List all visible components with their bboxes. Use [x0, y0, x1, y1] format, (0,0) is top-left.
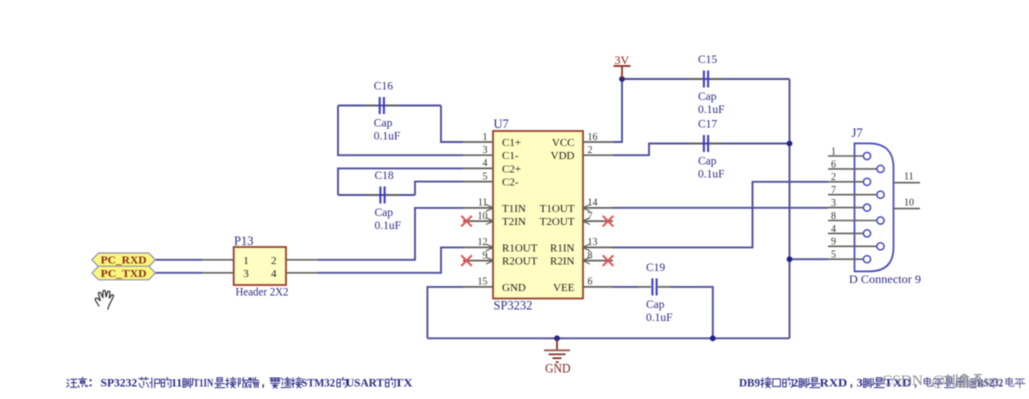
svg-text:GND: GND	[545, 361, 571, 375]
svg-text:T1OUT: T1OUT	[540, 203, 575, 215]
svg-text:T1IN: T1IN	[193, 376, 213, 390]
svg-text:11: 11	[478, 198, 488, 209]
pin 12 (R1OUT)	[463, 237, 538, 254]
svg-text:2: 2	[588, 145, 593, 156]
svg-text:R2IN: R2IN	[550, 256, 575, 268]
watermark CSDN	[882, 373, 1003, 389]
svg-text:RXD: RXD	[820, 376, 848, 390]
J7 pin 6	[828, 159, 884, 172]
svg-text:9: 9	[483, 250, 488, 261]
svg-text:3: 3	[857, 376, 863, 390]
connector J7 body	[855, 143, 894, 271]
svg-text:10: 10	[904, 198, 914, 209]
J7 pin 9	[828, 237, 884, 250]
wire C18 bottom	[338, 194, 415, 196]
wire 3V rail to C15	[622, 78, 790, 80]
wire P13.2 to T1IN	[318, 208, 463, 260]
wire pin 2 to C17	[613, 144, 790, 156]
IC U7 SP3232 body	[493, 131, 583, 299]
wire C16 to pin 3	[338, 106, 463, 156]
J7 pin 10	[894, 198, 921, 209]
power 3V	[614, 53, 631, 79]
svg-text:Cap: Cap	[698, 91, 717, 103]
wire P13.4 to R1OUT	[318, 247, 463, 272]
P13 pin 3 stub	[202, 272, 234, 274]
header P13 body	[234, 247, 286, 285]
pin 4 (C2+)	[463, 158, 521, 175]
junction	[787, 256, 793, 262]
J7 pin 5	[828, 250, 871, 263]
wire pin 4 to C18	[338, 168, 463, 195]
J7 pin 1	[828, 146, 871, 159]
svg-text:Header 2X2: Header 2X2	[236, 284, 289, 298]
wire GND to J7 pin 5	[790, 258, 829, 260]
svg-text:12: 12	[478, 237, 488, 248]
svg-text:0.1uF: 0.1uF	[646, 312, 673, 324]
svg-text:SP3232: SP3232	[101, 376, 138, 390]
svg-text:4: 4	[271, 268, 277, 280]
hand cursor	[95, 290, 113, 309]
svg-text:T2IN: T2IN	[502, 216, 526, 228]
svg-text:STM32: STM32	[302, 376, 336, 390]
capacitor C19 0.1uF	[638, 262, 673, 324]
svg-text:C16: C16	[374, 81, 393, 93]
svg-text:8: 8	[831, 211, 836, 222]
svg-text:Cap: Cap	[646, 299, 665, 311]
svg-text:2: 2	[271, 255, 277, 267]
svg-text:5: 5	[831, 250, 836, 261]
capacitor C18 0.1uF	[366, 170, 402, 232]
svg-text:Cap: Cap	[374, 118, 393, 130]
junction	[787, 141, 793, 147]
P13 pin 4 stub	[286, 272, 318, 274]
pin 5 (C2-)	[463, 171, 519, 188]
svg-text:T2OUT: T2OUT	[540, 216, 575, 228]
svg-text:15: 15	[478, 277, 488, 288]
svg-text:11: 11	[904, 172, 914, 183]
svg-text:Cap: Cap	[698, 156, 717, 168]
svg-text:3V: 3V	[615, 53, 630, 67]
svg-text:TX: TX	[395, 376, 413, 390]
pin 1 (C1+)	[463, 132, 521, 149]
svg-text:up.: up.	[985, 373, 1003, 389]
svg-text:4: 4	[831, 224, 836, 235]
wire C18 to pin 5	[415, 182, 463, 195]
svg-text:C19: C19	[646, 262, 665, 274]
pin 13 (R1IN)	[550, 237, 613, 254]
junction	[554, 335, 560, 341]
wire C19 to ground rail	[671, 287, 713, 338]
svg-text:VEE: VEE	[553, 282, 575, 294]
wire PC_RXD to P13.1	[155, 259, 202, 261]
svg-text:1: 1	[831, 146, 836, 157]
designator label P13	[234, 234, 253, 248]
P13 pin number 4	[271, 268, 277, 280]
svg-text:J7: J7	[852, 126, 863, 140]
svg-text:@: @	[932, 373, 945, 389]
port PC_TXD	[92, 266, 155, 280]
svg-text:U7: U7	[494, 117, 509, 131]
J7 pin 4	[828, 224, 871, 237]
J7 pin 8	[828, 211, 884, 224]
svg-text:2: 2	[831, 172, 836, 183]
svg-text:3: 3	[483, 145, 488, 156]
P13 pin 2 stub	[286, 259, 318, 261]
svg-text:GND: GND	[502, 282, 526, 294]
svg-text:CSDN: CSDN	[882, 373, 923, 389]
svg-text:C18: C18	[375, 170, 394, 182]
svg-text:1: 1	[243, 255, 249, 267]
P13 pin 1 stub	[202, 259, 234, 261]
pin 8 (R2IN)	[550, 250, 613, 267]
J7 pin 11	[894, 172, 921, 183]
svg-text:6: 6	[831, 159, 836, 170]
svg-text:7: 7	[588, 211, 593, 222]
note text (bottom right)	[739, 376, 1025, 390]
svg-text:13: 13	[588, 237, 598, 248]
svg-text:1: 1	[483, 132, 488, 143]
junction	[619, 76, 625, 82]
svg-text:C1+: C1+	[502, 137, 521, 149]
svg-text:T1IN: T1IN	[502, 203, 526, 215]
svg-text:3: 3	[831, 198, 836, 209]
P13 pin number 3	[243, 268, 249, 280]
svg-text:R2OUT: R2OUT	[502, 256, 538, 268]
svg-text:R1IN: R1IN	[550, 242, 575, 254]
svg-text:16: 16	[588, 132, 598, 143]
svg-text:0.1uF: 0.1uF	[698, 169, 725, 181]
svg-text:VCC: VCC	[552, 137, 575, 149]
J7 pin 3	[828, 198, 871, 211]
port PC_RXD	[92, 253, 155, 267]
no-connect X pin 9	[461, 255, 472, 266]
svg-text:0.1uF: 0.1uF	[698, 104, 725, 116]
pin 3 (C1-)	[463, 145, 519, 162]
J7 pin 7	[828, 185, 884, 198]
pin 9 (R2OUT)	[463, 250, 538, 267]
pin 14 (T1OUT)	[540, 198, 613, 215]
svg-text:D Connector 9: D Connector 9	[849, 272, 921, 286]
pin 16 (VCC)	[552, 132, 613, 149]
wire T1OUT to J7 pin 3	[613, 207, 828, 209]
svg-text:7: 7	[831, 185, 836, 196]
svg-text:C15: C15	[698, 54, 717, 66]
junction	[710, 335, 716, 341]
svg-text:C2-: C2-	[502, 177, 519, 189]
wire pin 6 to C19	[613, 286, 638, 288]
P13 pin number 1	[243, 255, 249, 267]
pin 10 (T2IN)	[463, 211, 526, 228]
wire pin 16 to 3V	[613, 79, 622, 142]
svg-text:3: 3	[243, 268, 249, 280]
no-connect X pin 10	[461, 216, 472, 227]
svg-text:SP3232: SP3232	[494, 299, 533, 313]
pin 11 (T1IN)	[463, 198, 526, 215]
svg-text:0.1uF: 0.1uF	[374, 131, 401, 143]
P13 pin number 2	[271, 255, 277, 267]
pin 6 (VEE)	[553, 277, 613, 294]
pin 15 (GND)	[463, 277, 526, 294]
wire pin 15 to ground rail	[427, 287, 463, 338]
svg-text:2: 2	[792, 376, 798, 390]
capacitor C16 0.1uF	[365, 81, 401, 143]
wire PC_TXD to P13.3	[155, 272, 202, 274]
svg-text:DB9: DB9	[739, 376, 760, 390]
svg-text:C2+: C2+	[502, 163, 521, 175]
svg-text:6: 6	[588, 277, 593, 288]
value label D Connector 9	[849, 272, 921, 286]
value label Header 2X2	[236, 284, 289, 298]
svg-text:R1OUT: R1OUT	[502, 242, 538, 254]
svg-text:8: 8	[588, 250, 593, 261]
capacitor C15 0.1uF	[689, 54, 725, 116]
value label SP3232	[494, 299, 533, 313]
svg-text:C1-: C1-	[502, 150, 519, 162]
designator label J7	[852, 126, 863, 140]
wire C16 top	[338, 105, 441, 107]
svg-text:P13: P13	[234, 234, 253, 248]
wire R1IN to J7 pin 2	[613, 182, 828, 248]
svg-text:5: 5	[483, 171, 488, 182]
ground GND	[544, 338, 571, 375]
J7 pin 2	[828, 172, 871, 185]
svg-text:11: 11	[171, 376, 182, 390]
svg-text:C17: C17	[698, 119, 717, 131]
svg-text:VDD: VDD	[551, 150, 575, 162]
designator label U7	[494, 117, 509, 131]
svg-text:PC_TXD: PC_TXD	[101, 268, 147, 280]
note text (bottom left)	[67, 376, 413, 390]
capacitor C17 0.1uF	[689, 119, 725, 181]
pin 2 (VDD)	[551, 145, 613, 162]
svg-text:10: 10	[478, 211, 488, 222]
wire C16 to pin 1	[441, 106, 463, 143]
svg-text:4: 4	[483, 158, 488, 169]
svg-text:9: 9	[831, 237, 836, 248]
svg-text:USART: USART	[346, 376, 384, 390]
no-connect X pin 7	[603, 216, 614, 227]
wire ground rail	[427, 337, 789, 339]
svg-text:14: 14	[588, 198, 598, 209]
svg-text:Cap: Cap	[375, 207, 394, 219]
svg-text:PC_RXD: PC_RXD	[101, 255, 147, 267]
no-connect X pin 8	[603, 255, 614, 266]
pin 7 (T2OUT)	[540, 211, 613, 228]
wire right vertical	[789, 79, 791, 338]
svg-text:0.1uF: 0.1uF	[375, 220, 402, 232]
